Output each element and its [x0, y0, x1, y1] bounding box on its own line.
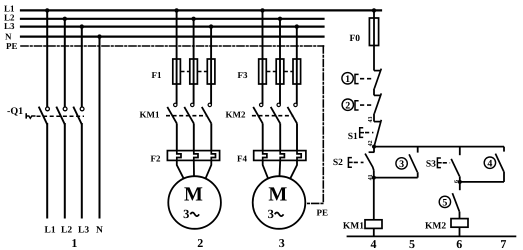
F2 heater pole2	[194, 151, 198, 161]
KM2 linkage dashed	[252, 115, 294, 117]
contact 3 bottom stub	[417, 172, 419, 177]
button S3 NO blade	[451, 159, 459, 176]
bracket actuator 2	[355, 101, 359, 110]
node L1-F0	[372, 8, 376, 12]
button S2 NC blade	[365, 154, 374, 171]
circled 4	[484, 157, 495, 168]
svg-text:KM1: KM1	[343, 221, 364, 231]
svg-text:L1: L1	[45, 226, 56, 236]
node L3-F3	[295, 24, 299, 28]
svg-text:4: 4	[371, 237, 377, 250]
wire L1 to F0	[373, 10, 375, 45]
wire KM2 coil to rail	[459, 227, 461, 236]
button S1 NC seat	[374, 121, 380, 123]
contact 2 NC blade	[374, 93, 381, 113]
node L1-F1	[174, 8, 178, 12]
svg-text:KM2: KM2	[425, 221, 446, 231]
fuse F3 pole2	[276, 59, 284, 84]
bus L1	[21, 9, 381, 11]
svg-text:43: 43	[368, 117, 374, 123]
contactor KM1 pole3 contact	[208, 103, 211, 106]
svg-text:S2: S2	[333, 158, 343, 168]
svg-text:-Q1: -Q1	[7, 106, 23, 117]
node L3-F1	[209, 24, 213, 28]
contactor KM1 pole2 blade	[184, 107, 194, 124]
wire KM1a to F2	[176, 123, 178, 150]
dashes actuator 1	[360, 78, 373, 80]
Q1 linkage dashed	[37, 115, 85, 117]
motor M3 leads	[263, 160, 269, 178]
wire contact5 to KM2 coil	[459, 212, 461, 219]
svg-text:PE: PE	[6, 41, 18, 51]
contactor KM2 pole1 contact	[260, 103, 263, 106]
svg-text:F3: F3	[238, 70, 248, 80]
wire contact1 to contact2	[373, 89, 375, 96]
circled 1	[342, 73, 353, 84]
svg-text:N: N	[96, 226, 103, 236]
rail contact4 bottom	[460, 181, 504, 183]
contactor KM2 pole1 blade	[253, 107, 263, 124]
contact 1 NC blade	[374, 69, 381, 89]
contact 2 NC seat	[374, 94, 380, 96]
bracket actuator 1	[355, 74, 359, 83]
wire N drop	[99, 37, 101, 218]
wire L3 tap to F3c	[296, 27, 298, 104]
svg-text:3: 3	[268, 207, 274, 221]
fuse F1 pole3	[207, 59, 215, 84]
E actuator S3	[437, 158, 441, 168]
F4 heater pole1	[263, 151, 267, 161]
contact 1 NC seat	[374, 70, 380, 72]
contactor KM1 pole1 contact	[174, 103, 177, 106]
svg-text:N: N	[5, 32, 12, 42]
svg-text:F2: F2	[151, 154, 161, 164]
F2 heater pole1	[177, 151, 181, 161]
node N drop	[97, 34, 101, 38]
F4 heater pole3	[297, 151, 301, 161]
dashes actuator 2	[360, 104, 373, 106]
wire L2 tap to F3b	[279, 19, 281, 103]
contactor KM1 pole1 blade	[167, 107, 177, 124]
rail contact3 bottom	[374, 177, 418, 179]
contact 5 NO blade	[452, 193, 459, 211]
F3 link dashed	[267, 71, 276, 73]
dashes actuator S2	[354, 161, 364, 163]
switch Q1 pole3 blade	[73, 107, 82, 125]
wire S2 to node	[373, 170, 375, 177]
svg-text:F1: F1	[152, 70, 162, 80]
F1 link dashed	[181, 71, 189, 73]
KM1 linkage dashed	[166, 115, 208, 117]
svg-text:3: 3	[183, 207, 189, 221]
motor M3 circle	[253, 176, 306, 229]
svg-text:M: M	[268, 183, 287, 205]
wire node to S2	[373, 147, 375, 153]
wire L1 tap to F3a	[262, 10, 264, 103]
button S3 top stub	[459, 147, 461, 156]
bus N	[21, 35, 324, 37]
wire KM2 to F4	[262, 123, 264, 150]
switch Q1 pole1 blade	[39, 107, 48, 125]
svg-text:5: 5	[409, 237, 415, 250]
svg-text:L3: L3	[4, 21, 15, 31]
wire S3 down	[459, 176, 461, 190]
PE drop wire dash-dot	[305, 46, 323, 203]
svg-text:F0: F0	[350, 34, 361, 44]
svg-text:4: 4	[487, 158, 492, 169]
E actuator S2	[348, 158, 352, 168]
F4 heater pole2	[280, 151, 284, 161]
wire through fuse F1a	[176, 59, 178, 84]
wire Q1 pole2 lower	[64, 124, 66, 218]
contactor KM2 pole3 blade	[288, 107, 298, 124]
svg-text:2: 2	[345, 100, 350, 111]
contact 3 branch: top stub	[417, 147, 419, 153]
svg-text:KM2: KM2	[226, 110, 246, 120]
circled 5	[439, 196, 450, 207]
svg-text:3: 3	[399, 159, 404, 170]
wire L1 tap to Q1 pole1	[46, 10, 48, 106]
bus L2	[21, 18, 324, 20]
dashes actuator S1	[365, 132, 373, 134]
coil KM2	[451, 219, 468, 228]
contact 4 bottom stub	[503, 171, 505, 182]
node S1 bottom	[372, 145, 376, 149]
node L2-F1	[191, 17, 195, 21]
wire KM1 coil to rail	[373, 228, 375, 236]
node L2-Q1	[63, 17, 67, 21]
wire L2 tap to Q1 pole2	[64, 19, 66, 107]
node L1-F3	[260, 8, 264, 12]
wire through fuse F3	[262, 59, 264, 84]
contact 4 NO blade	[495, 154, 503, 172]
contactor KM1 pole3 blade	[202, 107, 212, 124]
svg-text:3: 3	[279, 236, 285, 250]
wire L2 tap to F1b	[193, 19, 195, 103]
control bottom rail	[347, 235, 517, 237]
fuse F3 pole3	[293, 59, 301, 84]
wire contact2 to S1	[373, 114, 375, 122]
wire L3 tap to F1c	[210, 27, 212, 104]
Q1 manual handle	[25, 113, 27, 118]
svg-text:L2: L2	[61, 226, 72, 236]
thermal relay F2 box	[167, 151, 219, 161]
svg-text:5: 5	[442, 198, 447, 209]
E actuator S1	[360, 128, 364, 138]
contactor KM2 pole2 blade	[271, 107, 281, 124]
contact 3 NO blade	[409, 154, 417, 172]
wire F0 to contact 1	[373, 46, 375, 71]
svg-text:F4: F4	[237, 154, 247, 164]
svg-text:1: 1	[71, 236, 77, 250]
wire Q1 pole3 lower	[81, 124, 83, 218]
fuse F1 pole2	[190, 59, 198, 84]
contact 4 branch: top stub	[503, 147, 505, 152]
node L2-F3	[278, 17, 282, 21]
switch Q1 pole3 contact	[80, 107, 84, 111]
wire L3 tap to Q1 pole3	[81, 27, 83, 107]
node L1-Q1	[45, 8, 49, 12]
wire Q1 pole1 lower	[46, 124, 48, 218]
switch Q1 pole2 blade	[56, 107, 65, 125]
node S3 bottom	[458, 180, 462, 184]
svg-text:S1: S1	[348, 132, 358, 142]
button S1 NC blade	[374, 120, 381, 146]
svg-text:2: 2	[197, 236, 203, 250]
wire node to KM1 coil	[373, 178, 375, 220]
dashes actuator S3	[443, 162, 450, 164]
circled 2	[342, 99, 353, 110]
circled 3	[396, 158, 407, 169]
button S2 NC seat (left)	[369, 151, 375, 153]
fuse F0	[369, 18, 378, 46]
fuse F3 pole1	[259, 59, 267, 84]
motor M2 leads	[177, 160, 184, 178]
bus PE dash-dot	[21, 45, 324, 47]
wire L1 tap to F1a	[176, 10, 178, 103]
fuse F1 pole1	[173, 59, 181, 84]
rail top branch	[374, 146, 504, 148]
F2 heater pole3	[211, 151, 215, 161]
contactor KM2 pole3 contact	[294, 103, 297, 106]
switch Q1 pole2 contact	[63, 107, 67, 111]
bus L3	[21, 26, 324, 28]
svg-text:L3: L3	[78, 226, 89, 236]
thermal relay F4 box	[254, 151, 306, 161]
node L3-Q1	[80, 24, 84, 28]
svg-text:KM1: KM1	[140, 110, 160, 120]
svg-text:M: M	[184, 183, 203, 205]
svg-text:6: 6	[456, 237, 462, 250]
coil KM1	[365, 220, 382, 229]
svg-text:1: 1	[345, 74, 350, 85]
node S2 bottom	[372, 176, 376, 180]
contactor KM1 pole2 contact	[191, 103, 194, 106]
motor M2 circle	[168, 176, 221, 229]
svg-text:PE: PE	[317, 208, 329, 218]
svg-text:7: 7	[500, 237, 506, 250]
svg-text:S3: S3	[426, 160, 436, 170]
switch Q1 pole1 contact	[46, 107, 50, 111]
contactor KM2 pole2 contact	[277, 103, 280, 106]
